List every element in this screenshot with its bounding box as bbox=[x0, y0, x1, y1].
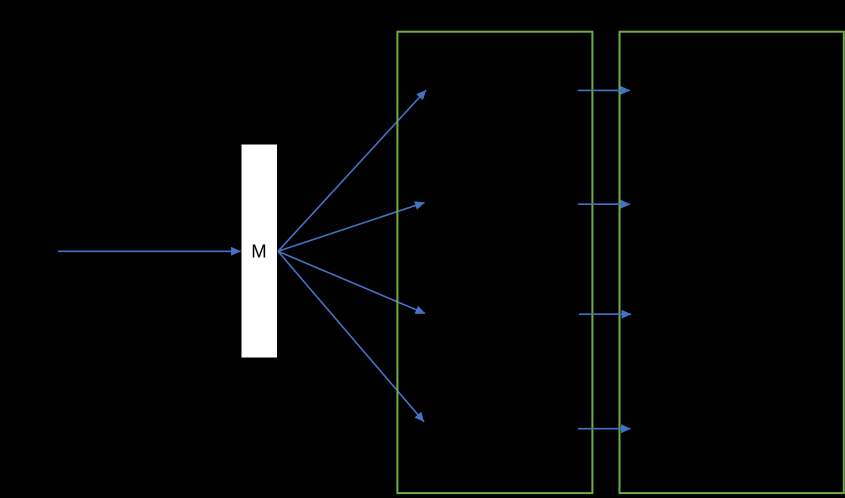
wire: fan arrow 1 (M to top) bbox=[278, 90, 426, 251]
block M (white rectangle) bbox=[242, 145, 278, 358]
wire: link arrow 1 (middle box to right box) bbox=[578, 89, 630, 91]
wire: link arrow 4 bbox=[578, 428, 631, 430]
box: right container bbox=[620, 32, 844, 493]
wire: fan arrow 3 bbox=[278, 251, 425, 313]
wire: link arrow 2 bbox=[578, 203, 630, 205]
wire: link arrow 3 bbox=[579, 313, 631, 315]
box: middle container bbox=[397, 32, 592, 493]
svg-text:M: M bbox=[251, 241, 266, 262]
wire: input arrow into M bbox=[58, 250, 241, 252]
wire: fan arrow 4 (M to bottom) bbox=[278, 251, 424, 421]
wire: fan arrow 2 bbox=[278, 203, 425, 252]
